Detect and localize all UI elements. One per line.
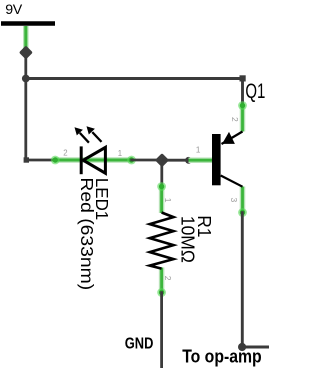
Q1 base terminal dot	[213, 157, 219, 163]
pin from 9V bar	[23, 26, 29, 49]
wire: R1 pin2 down to GND	[160, 291, 163, 368]
junction dot	[22, 75, 30, 83]
wire endpoint dot at base	[185, 157, 192, 164]
svg-text:2: 2	[163, 276, 173, 281]
wire: Q1 collector down	[241, 211, 244, 347]
wire endpoint glow at R1 pin 1	[157, 182, 166, 191]
LED1	[51, 126, 136, 290]
svg-text:10MΩ: 10MΩ	[178, 216, 199, 263]
LED1 emission arrow right	[92, 132, 101, 142]
R1 pin 1 lead	[159, 187, 165, 214]
resistor R1	[150, 182, 216, 297]
Q1 emitter pin lead	[240, 106, 246, 132]
svg-text:2: 2	[63, 149, 67, 158]
wire: to right edge (op-amp)	[242, 346, 269, 349]
svg-text:9V: 9V	[5, 2, 23, 18]
svg-text:1: 1	[163, 198, 173, 203]
Q1 base pin lead	[189, 157, 217, 163]
wire: LED pin1 to junction	[130, 159, 157, 162]
power rail bar 9V	[1, 21, 55, 25]
endpoint glow at collector	[238, 208, 247, 217]
corner dot left	[24, 157, 29, 162]
svg-text:GND: GND	[125, 335, 154, 352]
Q1 collector pin lead	[240, 187, 246, 213]
wire endpoint glow at LED pin 2	[51, 156, 60, 165]
R1 zigzag body	[150, 213, 174, 269]
svg-text:1: 1	[196, 145, 201, 155]
wire: junction to Q1 base	[162, 159, 189, 162]
svg-text:Q1: Q1	[245, 80, 265, 103]
LED1 emission arrow left	[80, 133, 89, 143]
svg-text:3: 3	[229, 198, 239, 203]
wire: left vertical drop	[24, 79, 27, 161]
junction diamond	[155, 153, 169, 167]
LED1 triangle	[83, 147, 105, 173]
Q1 base bar	[212, 134, 221, 185]
R1 pin 2 lead	[159, 268, 165, 293]
Q1 collector line	[221, 176, 243, 187]
node diamond (9V net)	[19, 45, 33, 59]
Q1 emitter arrow (PNP)	[222, 132, 235, 144]
wire: top rail horizontal	[26, 77, 243, 80]
transistor Q1	[189, 80, 266, 217]
svg-text:Red (633nm): Red (633nm)	[77, 177, 97, 290]
wire: down to Q1 emitter	[241, 79, 244, 107]
svg-text:2: 2	[230, 117, 240, 122]
corner dot top right	[240, 75, 246, 81]
svg-text:To op-amp: To op-amp	[182, 346, 262, 366]
wire: corner to LED pin 2	[26, 159, 57, 162]
corner dot bottom right	[238, 343, 246, 351]
wire endpoint glow at emitter	[238, 101, 247, 110]
wire: diamond to junction	[24, 57, 27, 79]
LED1 cathode bar	[80, 146, 83, 174]
wire endpoint glow at LED pin 1	[127, 156, 136, 165]
Q1 emitter line	[222, 132, 243, 145]
wire: junction down to R1	[160, 160, 163, 187]
svg-text:1: 1	[118, 149, 122, 158]
LED1 pin leads (2 left, 1 right)	[55, 157, 131, 163]
endpoint glow at R1 pin 2	[157, 288, 166, 297]
